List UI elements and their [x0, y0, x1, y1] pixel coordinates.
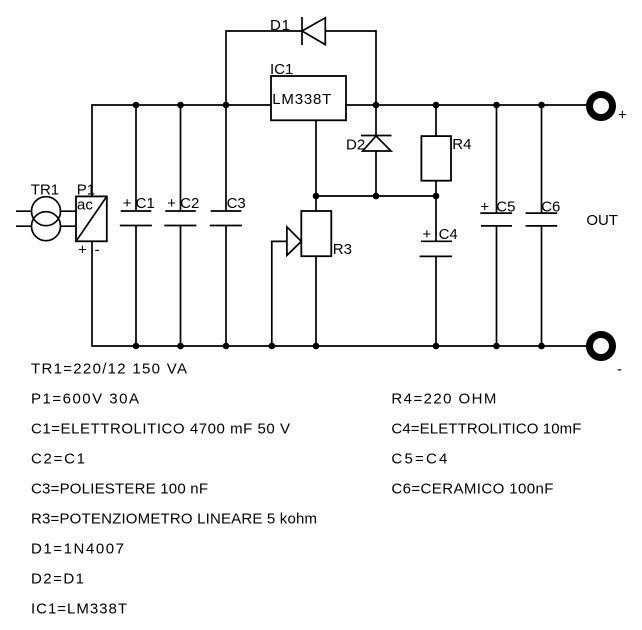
svg-text:C5: C5 — [496, 198, 515, 215]
svg-text:IC1: IC1 — [270, 61, 293, 78]
wire D1 left branch — [226, 31, 302, 105]
svg-text:D1=1N4007: D1=1N4007 — [31, 541, 124, 558]
svg-text:R3: R3 — [333, 241, 352, 258]
svg-text:+ C2: + C2 — [167, 195, 199, 212]
wire adjust rail — [316, 195, 436, 197]
node R4 top — [433, 102, 440, 109]
svg-text:C4=ELETTROLITICO 10mF: C4=ELETTROLITICO 10mF — [391, 421, 581, 438]
potentiometer R3 — [315, 196, 317, 346]
node R3 bottom — [313, 343, 320, 350]
wire D1 right branch — [325, 31, 376, 105]
wire IC1 adjust pin — [315, 120, 317, 196]
svg-text:ac: ac — [77, 197, 93, 214]
svg-text:C1=ELETTROLITICO 4700 mF 50 V: C1=ELETTROLITICO 4700 mF 50 V — [31, 421, 290, 438]
svg-text:+: + — [480, 198, 489, 215]
wire R3 wiper — [272, 241, 287, 346]
capacitor C2 — [164, 105, 196, 346]
svg-text:-: - — [617, 361, 622, 378]
node adj right — [433, 193, 440, 200]
terminal - output — [590, 335, 613, 358]
capacitor C1 — [120, 105, 152, 346]
svg-text:C6=CERAMICO 100nF: C6=CERAMICO 100nF — [391, 481, 553, 498]
svg-text:+: + — [618, 107, 627, 124]
svg-text:TR1: TR1 — [31, 182, 59, 199]
diode D1 — [301, 17, 303, 45]
svg-text:C2=C1: C2=C1 — [31, 451, 85, 468]
svg-text:TR1=220/12 150 VA: TR1=220/12 150 VA — [31, 361, 187, 378]
wire top rail left segment — [92, 105, 271, 196]
node C1 bottom — [133, 343, 140, 350]
svg-text:C6: C6 — [541, 198, 560, 215]
capacitor C6 — [526, 105, 558, 346]
svg-text:C3=POLIESTERE 100 nF: C3=POLIESTERE 100 nF — [31, 481, 208, 498]
svg-text:-: - — [95, 242, 100, 259]
svg-text:C4: C4 — [439, 226, 458, 243]
svg-text:+: + — [423, 226, 432, 243]
node C3 bottom — [223, 343, 230, 350]
wire TR1 left leads — [16, 211, 32, 226]
svg-text:R3=POTENZIOMETRO LINEARE 5 koh: R3=POTENZIOMETRO LINEARE 5 kohm — [31, 511, 317, 528]
resistor R4 — [435, 105, 437, 196]
transformer TR1 primary winding — [32, 197, 61, 226]
wire bottom rail — [92, 241, 587, 346]
potentiometer R3 wiper arrow — [287, 227, 301, 256]
node C1 top — [133, 102, 140, 109]
diode D2 — [361, 135, 392, 137]
node IC1 output — [373, 102, 380, 109]
node C2 bottom — [177, 343, 184, 350]
svg-text:D2: D2 — [346, 137, 365, 154]
op-amp U1 regulator IC1 box — [271, 76, 346, 120]
node C5 bottom — [493, 343, 500, 350]
svg-text:P1=600V 30A: P1=600V 30A — [31, 391, 139, 408]
node C6 bottom — [538, 343, 545, 350]
svg-text:C3: C3 — [227, 195, 246, 212]
terminal + output — [590, 95, 613, 118]
svg-text:LM338T: LM338T — [272, 91, 331, 108]
node C5 top — [493, 102, 500, 109]
wire D2 to adj rail — [375, 151, 377, 196]
svg-text:D1: D1 — [270, 17, 290, 34]
transformer TR1 secondary winding — [32, 212, 61, 241]
svg-text:R4=220 OHM: R4=220 OHM — [391, 391, 496, 408]
node C2 top — [177, 102, 184, 109]
svg-text:D2=D1: D2=D1 — [31, 571, 84, 588]
wire TR1 to bridge leads — [61, 211, 77, 226]
node adj middle — [373, 193, 380, 200]
svg-text:+ C1: + C1 — [123, 195, 155, 212]
capacitor C5 — [480, 105, 512, 346]
capacitor C4 — [420, 196, 453, 346]
node C6 top — [538, 102, 545, 109]
svg-text:R4: R4 — [452, 136, 471, 153]
node R3 wiper bottom — [269, 343, 276, 350]
node C4 bottom — [433, 343, 440, 350]
bridge rectifier P1 — [76, 196, 107, 241]
node C3 top — [223, 102, 230, 109]
wire top rail right segment — [346, 104, 587, 106]
svg-text:C5=C4: C5=C4 — [391, 451, 447, 468]
capacitor C3 — [210, 105, 242, 346]
node adj left — [313, 193, 320, 200]
wire IC1 output to D2 — [375, 105, 377, 136]
svg-text:OUT: OUT — [586, 212, 618, 229]
svg-text:IC1=LM338T: IC1=LM338T — [31, 601, 127, 618]
svg-text:+: + — [78, 242, 87, 259]
